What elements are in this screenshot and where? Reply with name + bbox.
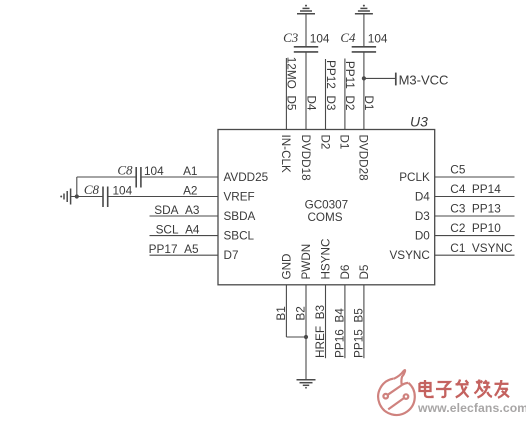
pin name IN-CLK (279, 135, 292, 174)
wire D6 pin down net PP16 (344, 285, 346, 358)
wire net SCL to SBCL pin (150, 235, 219, 237)
pin name D3 (415, 210, 430, 223)
wire net 12MO to IN-CLK pin (285, 58, 287, 130)
svg-text:C3 PP13: C3 PP13 (450, 202, 501, 216)
net label C1 VSYNC (450, 241, 513, 255)
wire C4 bottom plate to DVDD28 pin (363, 52, 365, 130)
svg-text:M3-VCC: M3-VCC (399, 73, 449, 88)
IC U3 part name GC0307 COMS (305, 199, 349, 224)
wire HSYNC pin down net HREF (325, 285, 327, 358)
power terminal bar M3-VCC (395, 73, 397, 86)
svg-text:D5: D5 (358, 264, 371, 279)
pin name D5 (358, 264, 371, 279)
char shao (477, 381, 479, 384)
wire net PP17 to D7 pin (150, 254, 219, 256)
svg-text:COMS: COMS (307, 211, 342, 224)
svg-text:www.elecfans.com: www.elecfans.com (417, 401, 526, 415)
capacitor C3 value 104 (310, 32, 330, 46)
capacitor C4 value 104 (368, 32, 388, 46)
wire junction to M3-VCC terminal (364, 77, 396, 79)
pin name D1 (338, 135, 351, 150)
svg-text:VREF: VREF (224, 191, 255, 204)
wire B1 elbow to PWDN wire (286, 336, 306, 338)
svg-text:104: 104 (310, 32, 330, 46)
svg-text:C4: C4 (340, 30, 356, 45)
svg-text:U3: U3 (410, 114, 428, 130)
net label HREF B3 (313, 304, 327, 358)
wire PCLK pin to net C5 (435, 176, 515, 178)
pin number label A2 (183, 184, 197, 198)
svg-text:D7: D7 (224, 249, 239, 262)
svg-text:D1: D1 (362, 95, 376, 110)
svg-text:A1: A1 (183, 164, 197, 178)
wire net PP11 to D1 pin (344, 59, 346, 130)
svg-text:VSYNC: VSYNC (390, 249, 430, 262)
svg-text:DVDD28: DVDD28 (357, 135, 370, 181)
ground symbol left (earth, pointing left) (60, 189, 70, 205)
capacitor C4 designator (340, 30, 356, 45)
svg-text:D1: D1 (338, 135, 351, 150)
IC U3 reference designator (410, 114, 428, 130)
svg-text:PP12 D3: PP12 D3 (324, 60, 338, 111)
net label PP11 D2 (343, 61, 357, 111)
svg-text:PP17 A5: PP17 A5 (149, 242, 199, 256)
net label PP12 D3 (324, 60, 338, 111)
capacitor C3 (294, 47, 318, 52)
net label C2 PP10 (450, 221, 501, 235)
wire A1 row to C8a left plate (77, 176, 136, 178)
ground symbol top-left above C3 (297, 5, 315, 14)
svg-text:HSYNC: HSYNC (320, 239, 333, 280)
svg-text:B2: B2 (294, 306, 308, 320)
pin number label C5 (450, 163, 466, 177)
svg-text:PWDN: PWDN (300, 244, 313, 280)
svg-text:D4: D4 (304, 95, 318, 111)
net label SCL A4 (156, 222, 200, 236)
watermark text www.elecfans.com (417, 401, 526, 415)
svg-text:PCLK: PCLK (399, 171, 430, 184)
pin name AVDD25 (224, 171, 269, 184)
pin name SBDA (224, 210, 256, 223)
net label PP16 B4 (333, 308, 347, 358)
capacitor C8 (lower) value 104 (113, 183, 133, 197)
net label D1 (362, 95, 376, 110)
pin number label B2 (294, 306, 308, 320)
svg-text:D6: D6 (339, 265, 352, 280)
capacitor C8 (upper) designator (117, 163, 133, 178)
wire C3 bottom plate to DVDD18 pin (305, 52, 307, 130)
svg-text:PP15 B5: PP15 B5 (352, 308, 366, 358)
wire ground to C4 top plate (363, 14, 365, 47)
svg-text:SBDA: SBDA (224, 210, 256, 223)
pin name D2 (318, 135, 331, 150)
capacitor C3 designator (283, 30, 299, 45)
svg-text:D0: D0 (415, 230, 430, 243)
capacitor C8 (lower) (103, 187, 108, 208)
pin name HSYNC (320, 239, 333, 280)
pin number label A1 (183, 164, 197, 178)
svg-text:GC0307: GC0307 (305, 199, 349, 212)
svg-text:104: 104 (113, 183, 133, 197)
ground symbol top-right above C4 (355, 5, 373, 14)
capacitor C8 (lower) designator (84, 182, 100, 197)
svg-text:AVDD25: AVDD25 (224, 171, 269, 184)
capacitor C8 (upper) value 104 (144, 164, 164, 178)
net label D4 (304, 95, 318, 111)
pin name SBCL (224, 230, 255, 243)
char fa (457, 380, 461, 386)
svg-text:SDA A3: SDA A3 (154, 203, 200, 217)
wire net SDA to SBDA pin (150, 215, 219, 217)
char you (495, 383, 509, 385)
pin name PCLK (399, 171, 430, 184)
watermark logo elecfans circle (378, 370, 415, 415)
svg-text:IN-CLK: IN-CLK (279, 135, 292, 174)
junction node GND/PWDN (304, 335, 308, 339)
svg-text:C4 PP14: C4 PP14 (450, 182, 501, 196)
svg-text:PP11 D2: PP11 D2 (343, 61, 357, 111)
wire C8a right plate to AVDD25 pin (141, 176, 218, 178)
wire left ground to junction (71, 196, 103, 198)
pin name D7 (224, 249, 239, 262)
svg-text:B1: B1 (274, 306, 288, 320)
IC U3 GC0307 COMS body (218, 130, 435, 285)
pin name D6 (339, 265, 352, 280)
net label PP17 A5 (149, 242, 199, 256)
pin name D4 (415, 191, 430, 204)
pin number label B1 (274, 306, 288, 320)
svg-text:D2: D2 (318, 135, 331, 150)
svg-text:C5: C5 (450, 163, 466, 177)
wire net PP12 to D2 pin (325, 59, 327, 130)
char zi (438, 382, 450, 387)
svg-text:C3: C3 (283, 30, 299, 45)
svg-text:C2 PP10: C2 PP10 (450, 221, 501, 235)
pin name GND (281, 254, 294, 280)
wire VSYNC pin to net VSYNC (435, 254, 515, 256)
char dian (424, 380, 426, 392)
svg-text:DVDD18: DVDD18 (299, 135, 312, 181)
svg-text:C1 VSYNC: C1 VSYNC (450, 241, 513, 255)
pin name D0 (415, 230, 430, 243)
wire riser junction up to A1 row (76, 177, 78, 197)
wire ground to C3 top plate (305, 14, 307, 47)
wire D0 pin to net PP10 (435, 235, 515, 237)
svg-text:C8: C8 (84, 182, 100, 197)
svg-text:HREF B3: HREF B3 (313, 304, 327, 358)
wire PWDN pin down to ground (B2) (305, 285, 307, 380)
wire D3 pin to net PP13 (435, 215, 515, 217)
net label C4 PP14 (450, 182, 501, 196)
watermark Chinese characters dian zi fa shao you (420, 380, 510, 398)
svg-text:C8: C8 (117, 163, 133, 178)
junction node on DVDD28 wire (362, 76, 366, 80)
power net label M3-VCC (399, 73, 449, 88)
wire D5 pin down net PP15 (363, 285, 365, 358)
pin name VSYNC (390, 249, 430, 262)
capacitor C8 (upper) (136, 167, 141, 188)
junction node A2 branch (75, 194, 79, 198)
svg-text:SCL A4: SCL A4 (156, 222, 200, 236)
net label PP15 B5 (352, 308, 366, 358)
pin name DVDD28 (357, 135, 370, 181)
wire C8b right plate to VREF pin (108, 196, 218, 198)
pin name DVDD18 (299, 135, 312, 181)
svg-text:SBCL: SBCL (224, 230, 255, 243)
wire D4 pin to net PP14 (435, 196, 515, 198)
net label SDA A3 (154, 203, 200, 217)
wire GND pin down (B1) (285, 285, 287, 337)
svg-text:D3: D3 (415, 210, 430, 223)
ground symbol bottom (297, 380, 316, 389)
svg-text:D4: D4 (415, 191, 430, 204)
svg-text:PP16 B4: PP16 B4 (333, 308, 347, 358)
net label 12MO D5 (285, 57, 299, 111)
pin name VREF (224, 191, 255, 204)
svg-text:104: 104 (368, 32, 388, 46)
capacitor C4 (352, 47, 376, 52)
svg-text:12MO D5: 12MO D5 (285, 57, 299, 111)
svg-text:GND: GND (281, 254, 294, 280)
svg-text:A2: A2 (183, 184, 197, 198)
net label C3 PP13 (450, 202, 501, 216)
pin name PWDN (300, 244, 313, 280)
svg-text:104: 104 (144, 164, 164, 178)
